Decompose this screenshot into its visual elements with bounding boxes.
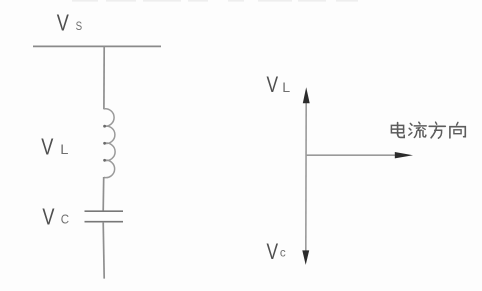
capacitor C1 top plate xyxy=(85,210,124,212)
svg-text:L: L xyxy=(282,79,290,95)
coil cusp joints xyxy=(103,125,106,128)
wire: source rail horizontal xyxy=(33,45,161,47)
label VL (phasor) xyxy=(267,73,291,97)
label VC xyxy=(42,204,69,230)
svg-text:V: V xyxy=(42,204,54,230)
svg-text:S: S xyxy=(76,20,83,33)
phasor VC arrowhead (down) xyxy=(302,250,309,265)
svg-text:V: V xyxy=(267,73,279,97)
svg-text:V: V xyxy=(41,134,53,160)
svg-text:L: L xyxy=(60,142,68,158)
svg-text:C: C xyxy=(61,212,70,227)
wire: vertical from rail to inductor xyxy=(103,46,105,109)
流 xyxy=(409,122,426,137)
svg-text:V: V xyxy=(57,11,69,37)
node Vs label xyxy=(57,11,82,37)
向 xyxy=(450,122,465,137)
label VL xyxy=(41,134,68,160)
phasor current arrowhead (right) xyxy=(395,152,413,158)
label VC (phasor) xyxy=(267,240,286,264)
inductor L1 xyxy=(104,109,115,178)
svg-text:V: V xyxy=(267,240,279,264)
phasor vertical shaft xyxy=(305,100,307,253)
label 电流方向 (hand-drawn CJK strokes) xyxy=(391,122,465,138)
phasor current axis shaft xyxy=(306,154,397,156)
phasor VL arrowhead (up) xyxy=(303,87,310,103)
wire: capacitor to bottom terminal xyxy=(103,222,104,279)
capacitor C1 bottom plate xyxy=(85,221,124,223)
wire: inductor to capacitor xyxy=(102,177,105,211)
svg-text:c: c xyxy=(280,245,286,259)
电 xyxy=(391,123,404,138)
方 xyxy=(429,122,445,138)
